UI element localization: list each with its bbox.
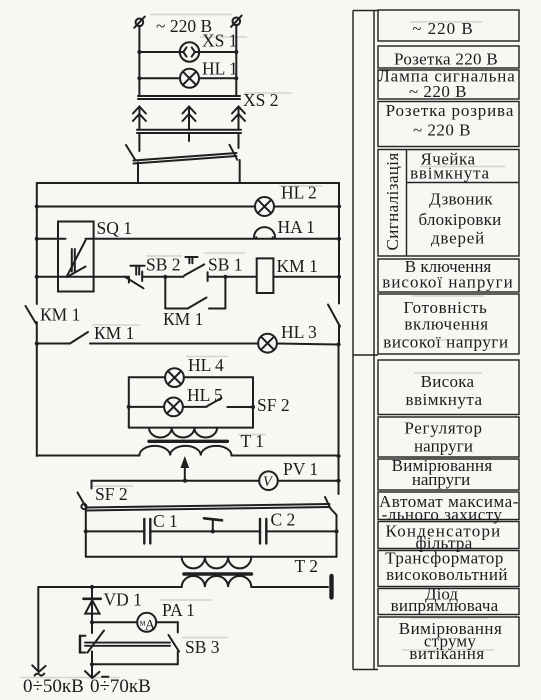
svg-text:ввімкнута: ввімкнута: [410, 164, 490, 183]
svg-text:високовольтний: високовольтний: [386, 565, 508, 584]
svg-text:високої напруги: високої напруги: [383, 332, 508, 351]
svg-text:HL 5: HL 5: [187, 385, 223, 405]
svg-text:HL 1: HL 1: [202, 59, 238, 79]
svg-text:HL 2: HL 2: [281, 183, 317, 203]
svg-text:XS 2: XS 2: [243, 90, 279, 110]
svg-text:дверей: дверей: [431, 229, 485, 248]
svg-text:HA 1: HA 1: [278, 217, 315, 237]
svg-text:SQ 1: SQ 1: [97, 218, 133, 238]
svg-text:SB 1: SB 1: [208, 255, 243, 275]
svg-text:PV 1: PV 1: [283, 459, 318, 479]
svg-text:C 2: C 2: [271, 510, 296, 530]
svg-text:КМ 1: КМ 1: [40, 305, 80, 325]
svg-text:C 1: C 1: [153, 511, 178, 531]
svg-text:PA 1: PA 1: [162, 600, 195, 620]
svg-text:HL 3: HL 3: [281, 322, 317, 342]
svg-text:Висока: Висока: [421, 372, 475, 391]
svg-text:HL 4: HL 4: [188, 355, 224, 375]
svg-text:0÷50кВ: 0÷50кВ: [23, 676, 84, 697]
svg-text:Сигналізація: Сигналізація: [383, 152, 402, 250]
svg-text:XS 1: XS 1: [202, 31, 238, 51]
svg-text:напруги: напруги: [414, 436, 473, 455]
svg-text:ввімкнута: ввімкнута: [405, 390, 482, 409]
svg-text:блокіровки: блокіровки: [418, 210, 501, 229]
svg-text:включення: включення: [404, 314, 488, 333]
svg-text:~ 220 В: ~ 220 В: [409, 82, 467, 101]
svg-text:випрямлювача: випрямлювача: [391, 596, 499, 615]
svg-text:0÷70кВ: 0÷70кВ: [90, 676, 151, 697]
svg-text:T 2: T 2: [295, 556, 319, 576]
svg-text:напруги: напруги: [412, 470, 470, 489]
svg-text:~ 220 В: ~ 220 В: [413, 121, 471, 140]
svg-text:Розетка розривa: Розетка розривa: [386, 101, 515, 120]
svg-text:Регулятор: Регулятор: [404, 418, 482, 437]
svg-text:SF 2: SF 2: [257, 395, 290, 415]
svg-text:SB 2: SB 2: [146, 255, 181, 275]
svg-text:КМ 1: КМ 1: [163, 309, 203, 329]
svg-text:VD 1: VD 1: [104, 590, 142, 610]
svg-text:KM 1: KM 1: [277, 256, 318, 276]
svg-text:КМ 1: КМ 1: [94, 323, 134, 343]
svg-text:~ 220 В: ~ 220 В: [412, 19, 474, 38]
svg-text:SB 3: SB 3: [185, 637, 220, 657]
svg-text:витікання: витікання: [409, 644, 484, 663]
svg-text:SF 2: SF 2: [95, 484, 128, 504]
svg-text:T 1: T 1: [241, 431, 265, 451]
svg-text:А: А: [145, 617, 156, 633]
svg-text:Дзвоник: Дзвоник: [429, 190, 493, 209]
svg-text:високої напруги: високої напруги: [382, 273, 513, 292]
